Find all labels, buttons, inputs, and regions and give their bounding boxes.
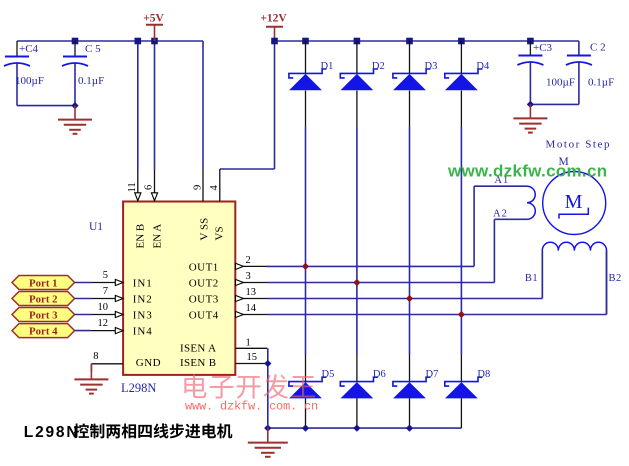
wire VS net bbox=[274, 41, 276, 169]
pin 1 ISEN A bbox=[235, 347, 267, 349]
svg-text:C 2: C 2 bbox=[590, 42, 606, 54]
wire A1 net bbox=[474, 185, 527, 187]
ground bbox=[267, 428, 269, 443]
svg-text:0.1µF: 0.1µF bbox=[78, 75, 104, 87]
svg-text:OUT1: OUT1 bbox=[189, 261, 219, 273]
wire +5V bus bbox=[17, 40, 203, 42]
wire OUT3 net bbox=[267, 298, 542, 300]
svg-text:L298N: L298N bbox=[24, 424, 80, 441]
svg-text:VS: VS bbox=[214, 226, 226, 240]
svg-text:D5: D5 bbox=[322, 369, 335, 380]
wire D3 column bbox=[409, 41, 411, 73]
wire B1 net bbox=[541, 251, 543, 299]
pin 8 GND bbox=[91, 363, 123, 365]
diode D1 bbox=[289, 69, 327, 78]
capacitor C2 bbox=[578, 54, 580, 56]
diode D8 bbox=[445, 377, 483, 386]
svg-text:10: 10 bbox=[98, 302, 109, 313]
junction bbox=[406, 295, 413, 302]
diode D7 bbox=[393, 377, 431, 386]
svg-text:C 5: C 5 bbox=[85, 43, 101, 55]
capacitor C4 bbox=[16, 41, 18, 56]
port Port 2 bbox=[12, 292, 75, 306]
svg-text:L298N: L298N bbox=[121, 381, 156, 395]
wire Port 3 to IN3 bbox=[75, 314, 91, 316]
pin 10 IN3 bbox=[91, 314, 124, 316]
svg-text:D8: D8 bbox=[477, 369, 490, 380]
diode D5 bbox=[289, 377, 327, 386]
junction bbox=[353, 279, 360, 286]
svg-text:7: 7 bbox=[103, 286, 108, 297]
svg-text:12: 12 bbox=[98, 318, 109, 329]
svg-text:V SS: V SS bbox=[199, 218, 211, 241]
svg-text:9: 9 bbox=[193, 185, 204, 190]
pin 5 IN1 bbox=[91, 282, 124, 284]
wire ground bus bottom bbox=[268, 427, 462, 429]
svg-text:13: 13 bbox=[246, 287, 257, 298]
port Port 1 bbox=[12, 276, 75, 290]
wire C4-C5 ground net bbox=[17, 105, 75, 107]
wire Port 1 to IN1 bbox=[75, 282, 91, 284]
wire D5 column bbox=[305, 266, 307, 355]
wire OUT2 net bbox=[267, 282, 494, 284]
svg-text:D3: D3 bbox=[425, 61, 438, 72]
svg-text:D6: D6 bbox=[373, 369, 386, 380]
wire B2 net bbox=[606, 251, 608, 315]
wire D6 column bbox=[356, 283, 358, 356]
ground bbox=[74, 106, 76, 120]
ic U1 L298N bbox=[123, 202, 235, 375]
svg-text:A2: A2 bbox=[493, 209, 508, 220]
svg-text:5: 5 bbox=[103, 270, 108, 281]
inductor coil A bbox=[527, 186, 535, 219]
motor M circle bbox=[543, 172, 606, 235]
junction bbox=[458, 311, 465, 318]
svg-text:D7: D7 bbox=[426, 369, 439, 380]
diode D3 bbox=[393, 69, 431, 78]
junction bbox=[72, 38, 79, 45]
svg-text:IN1: IN1 bbox=[133, 278, 153, 290]
pin 11 EN B bbox=[137, 170, 139, 202]
svg-text:GND: GND bbox=[136, 357, 161, 369]
wire C3-C2 ground net bbox=[530, 103, 579, 105]
svg-text:Port 2: Port 2 bbox=[29, 293, 57, 305]
svg-text:EN A: EN A bbox=[152, 224, 164, 249]
wire D4 column bbox=[460, 41, 462, 73]
junction bbox=[264, 425, 271, 432]
svg-text:Port 3: Port 3 bbox=[29, 309, 58, 321]
wire D8 column bbox=[460, 315, 462, 356]
wire Port 4 to IN4 bbox=[75, 330, 91, 332]
wire OUT1 net bbox=[267, 265, 474, 267]
pin 4 VS bbox=[219, 169, 221, 202]
pin 9 VSS bbox=[202, 170, 204, 202]
svg-text:D2: D2 bbox=[372, 61, 385, 72]
svg-text:U1: U1 bbox=[89, 221, 103, 233]
svg-text:IN2: IN2 bbox=[133, 294, 153, 306]
svg-text:1: 1 bbox=[246, 338, 251, 349]
capacitor C3 bbox=[529, 41, 531, 55]
svg-text:ISEN A: ISEN A bbox=[180, 343, 216, 355]
junction bbox=[264, 360, 271, 367]
svg-text:OUT2: OUT2 bbox=[189, 278, 219, 290]
junction bbox=[302, 263, 309, 270]
ground bbox=[90, 364, 92, 380]
pin 12 IN4 bbox=[91, 330, 124, 332]
wire D7 column bbox=[409, 299, 411, 356]
diode D2 bbox=[340, 69, 378, 78]
pin 2 OUT1 bbox=[235, 265, 267, 267]
diode D4 bbox=[445, 69, 483, 78]
svg-text:100µF: 100µF bbox=[546, 77, 575, 89]
junction bbox=[71, 102, 78, 109]
svg-text:15: 15 bbox=[247, 352, 258, 363]
junction bbox=[271, 38, 278, 45]
diode D6 bbox=[340, 377, 378, 386]
svg-text:4: 4 bbox=[209, 185, 220, 191]
svg-text:M: M bbox=[565, 191, 583, 213]
wire D1 column bbox=[305, 41, 307, 73]
pin 3 OUT2 bbox=[235, 282, 267, 284]
svg-text:B1: B1 bbox=[525, 273, 538, 284]
svg-text:3: 3 bbox=[246, 271, 251, 282]
svg-text:+C3: +C3 bbox=[533, 42, 553, 54]
svg-text:100µF: 100µF bbox=[15, 75, 44, 87]
port Port 3 bbox=[12, 308, 75, 322]
svg-text:Port 4: Port 4 bbox=[29, 325, 58, 337]
svg-text:www. dzkfw. com. cn: www. dzkfw. com. cn bbox=[185, 400, 318, 414]
pin 15 ISEN B bbox=[235, 363, 267, 365]
wire ISEN net bbox=[267, 348, 269, 428]
svg-text:8: 8 bbox=[93, 351, 98, 362]
power +12V bbox=[266, 26, 283, 28]
inductor coil B bbox=[542, 242, 606, 250]
svg-text:IN4: IN4 bbox=[133, 326, 153, 338]
svg-text:IN3: IN3 bbox=[133, 310, 153, 322]
svg-text:D4: D4 bbox=[476, 61, 490, 72]
svg-text:www.dzkfw.com.cn: www.dzkfw.com.cn bbox=[447, 162, 607, 181]
pin 7 IN2 bbox=[91, 298, 124, 300]
svg-text:+12V: +12V bbox=[260, 13, 287, 25]
power +5V bbox=[146, 24, 163, 26]
wire EN B net bbox=[137, 41, 139, 170]
wire D2 column bbox=[356, 41, 358, 73]
svg-text:OUT4: OUT4 bbox=[189, 310, 219, 322]
watermark red dianzikaifawang bbox=[184, 374, 315, 399]
svg-text:Port 1: Port 1 bbox=[29, 277, 57, 289]
svg-text:EN B: EN B bbox=[135, 224, 147, 249]
wire OUT4 net bbox=[267, 314, 607, 316]
wire EN A net bbox=[154, 41, 156, 170]
svg-text:2: 2 bbox=[246, 255, 251, 266]
junction bbox=[527, 101, 534, 108]
svg-text:B2: B2 bbox=[609, 273, 622, 284]
wire Port 2 to IN2 bbox=[75, 298, 91, 300]
svg-text:14: 14 bbox=[246, 303, 257, 314]
svg-text:11: 11 bbox=[127, 182, 138, 192]
svg-text:6: 6 bbox=[144, 185, 155, 190]
svg-text:0.1µF: 0.1µF bbox=[588, 77, 614, 89]
svg-text:D1: D1 bbox=[321, 61, 334, 72]
pin 6 EN A bbox=[154, 170, 156, 202]
ground bbox=[529, 104, 531, 118]
svg-text:ISEN B: ISEN B bbox=[180, 357, 216, 369]
svg-text:OUT3: OUT3 bbox=[189, 294, 219, 306]
pin 13 OUT3 bbox=[235, 298, 267, 300]
port Port 4 bbox=[12, 324, 75, 338]
svg-text:+C4: +C4 bbox=[19, 43, 39, 55]
svg-text:Motor Step: Motor Step bbox=[546, 139, 611, 151]
capacitor C5 bbox=[74, 41, 76, 56]
wire A2 net bbox=[494, 218, 527, 220]
wire +12V bus bbox=[275, 40, 579, 42]
wire GND net bbox=[90, 364, 92, 372]
svg-text:+5V: +5V bbox=[143, 13, 164, 25]
pin 14 OUT4 bbox=[235, 314, 267, 316]
